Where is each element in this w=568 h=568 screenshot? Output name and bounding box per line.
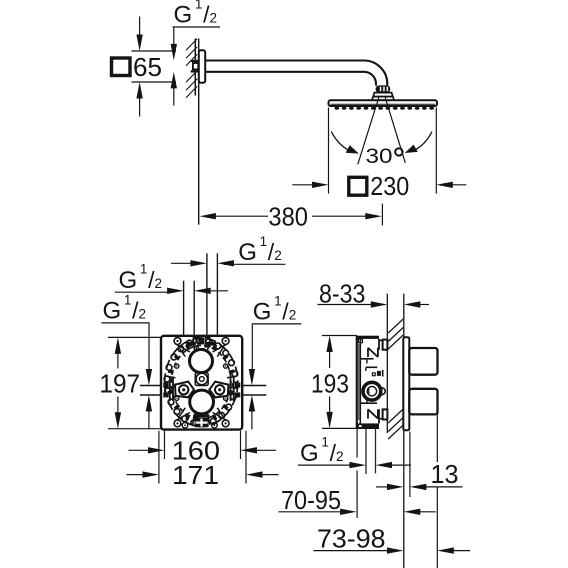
square symbol for 65 — [112, 58, 131, 76]
svg-text:1: 1 — [260, 234, 268, 249]
square symbol for 230 — [349, 177, 367, 195]
svg-text:30: 30 — [366, 145, 393, 168]
valve bottom clip — [383, 409, 388, 419]
valve logo mark — [372, 373, 375, 376]
svg-text:1: 1 — [140, 262, 148, 277]
mixer center housing — [195, 373, 208, 386]
svg-text:1: 1 — [195, 0, 203, 12]
svg-text:G: G — [119, 267, 138, 294]
svg-text:197: 197 — [99, 368, 140, 398]
mixer corner screws — [174, 338, 181, 345]
svg-text:171: 171 — [172, 460, 219, 490]
wall hatching top (side view) — [388, 319, 403, 333]
mixer upper cartridge circle — [190, 350, 213, 373]
svg-text:G: G — [103, 298, 122, 325]
dimension 230 arrows — [292, 182, 466, 188]
svg-text:2: 2 — [210, 11, 218, 26]
svg-text:1: 1 — [321, 435, 329, 450]
dimension 193 — [322, 335, 357, 337]
svg-text:1: 1 — [124, 292, 132, 307]
extension line body rear — [356, 429, 358, 458]
ball joint cone — [373, 93, 393, 97]
svg-text:G: G — [253, 299, 272, 326]
ball joint collar — [376, 85, 391, 92]
wall hatching bottom — [186, 71, 197, 83]
svg-text:380: 380 — [268, 201, 308, 231]
svg-text:1: 1 — [274, 293, 282, 308]
shower arm nut — [191, 60, 199, 62]
mixer diagonal spokes — [176, 344, 191, 352]
dimension 197 — [108, 336, 161, 338]
shower arm pipe with bend — [205, 61, 387, 86]
svg-text:G: G — [238, 239, 257, 266]
shower head plate — [329, 100, 438, 106]
mixer mounting frame — [161, 336, 242, 430]
svg-text:65: 65 — [133, 52, 162, 82]
valve internal shelves — [360, 358, 373, 360]
dimension 65 extension lines — [132, 50, 177, 52]
wall hatching bottom (side view) — [388, 409, 403, 423]
wall line finished (side view) — [403, 294, 405, 568]
dimension 65 arrows — [136, 17, 142, 117]
wall line rough (side view) — [386, 294, 388, 433]
wall hatching top — [186, 39, 197, 51]
dimension 230 extension lines — [328, 108, 330, 194]
svg-text:193: 193 — [311, 368, 349, 398]
svg-text:13: 13 — [431, 459, 459, 489]
mixer lower cartridge circle — [190, 390, 214, 414]
mixer top pipes — [183, 281, 185, 336]
top handle — [409, 348, 437, 375]
bottom handle — [409, 389, 437, 415]
wall plate (escutcheon) — [403, 337, 409, 430]
mixer side inlet stubs — [140, 385, 161, 387]
wall line (top view) — [194, 39, 196, 96]
svg-text:2: 2 — [139, 307, 147, 322]
extension line handle right — [436, 415, 438, 463]
valve spring top — [367, 348, 369, 357]
valve bottom outlet stub — [365, 429, 367, 474]
svg-text:2: 2 — [274, 248, 282, 263]
svg-text:2: 2 — [336, 449, 344, 464]
valve spring bottom — [367, 409, 369, 418]
mixer bottom anchor cross — [193, 415, 210, 418]
mixer left knob — [175, 382, 194, 398]
mixer right knob — [209, 382, 228, 398]
spray cone lines 30 deg — [358, 98, 379, 165]
valve screw circle — [363, 382, 381, 400]
dimension 160 — [164, 431, 166, 459]
dimension 380 — [199, 204, 382, 226]
svg-text:2: 2 — [155, 276, 163, 291]
curved arrow left — [331, 132, 353, 153]
svg-text:G: G — [300, 440, 319, 467]
mixer rough-in body wreath — [164, 338, 238, 427]
curved arrow right — [410, 132, 432, 152]
valve nose — [381, 388, 386, 395]
valve top clip — [383, 340, 388, 350]
svg-text:2: 2 — [289, 308, 297, 323]
dimension 171 — [158, 431, 160, 484]
shower head nozzles — [334, 107, 339, 110]
svg-text:230: 230 — [370, 171, 409, 201]
valve body (side view) — [357, 336, 385, 429]
svg-text:G: G — [174, 2, 193, 29]
dimension 13 extension line — [409, 432, 411, 498]
svg-text:73-98: 73-98 — [317, 524, 386, 554]
shower arm wall flange — [199, 50, 205, 82]
mixer top anchor — [193, 338, 198, 347]
mixer side rails — [169, 377, 171, 402]
svg-text:70-95: 70-95 — [281, 485, 341, 515]
